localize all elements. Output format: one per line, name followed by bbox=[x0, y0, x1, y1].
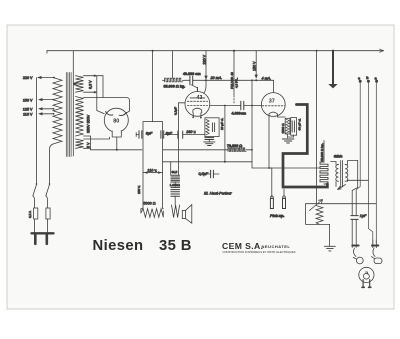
speaker hum coil lower bbox=[171, 187, 180, 196]
potentiometer volume bbox=[310, 200, 323, 223]
node junctions on plate line bbox=[205, 79, 257, 81]
wire bus drop with arrow x206 220V bbox=[204, 51, 207, 80]
ground under 43 bbox=[204, 140, 215, 146]
wire plate lead to 20mA line bbox=[204, 80, 206, 93]
rectifier tube V1 80 bbox=[104, 108, 128, 132]
capacitor 8uF right plates bbox=[161, 131, 164, 138]
wire secondary to line bbox=[348, 161, 369, 182]
wire bus drop to chassis x73 bbox=[72, 51, 74, 156]
svg-text:NEUCHATEL: NEUCHATEL bbox=[262, 244, 291, 249]
banana plug 1 bbox=[353, 248, 363, 264]
wire tap 110V with arrow bbox=[38, 112, 54, 115]
svg-text:150 V: 150 V bbox=[253, 61, 257, 71]
capacitor third plates bbox=[165, 131, 205, 138]
wire terminal c down bbox=[356, 83, 360, 190]
capacitor cathode bypass plates bbox=[205, 138, 214, 140]
output tube V2 43 bbox=[185, 92, 210, 117]
svg-text:c: c bbox=[358, 77, 360, 81]
transformer T1 core bbox=[66, 73, 71, 157]
wire tap 125V with arrow bbox=[38, 107, 54, 110]
wire HV bottom lead bbox=[84, 136, 91, 148]
svg-text:110 V: 110 V bbox=[23, 113, 33, 117]
svg-text:5000 Ω: 5000 Ω bbox=[144, 202, 156, 206]
svg-text:40 µF el.: 40 µF el. bbox=[298, 118, 302, 130]
svg-text:125 V: 125 V bbox=[23, 107, 33, 111]
svg-text:230 v.: 230 v. bbox=[185, 130, 196, 134]
rectifier cathode notch bbox=[112, 131, 121, 138]
wire tap 150V with arrow bbox=[38, 98, 54, 101]
ground under potentiometer bbox=[324, 246, 335, 251]
label vertical two-line beside x234 bbox=[230, 72, 239, 89]
svg-text:46,5: 46,5 bbox=[171, 170, 177, 174]
speaker field coil upper bbox=[171, 175, 180, 182]
svg-text:El. Haut-Parleur: El. Haut-Parleur bbox=[204, 190, 232, 195]
resistor 45000 ohm bp vertical bbox=[320, 162, 328, 184]
svg-text:20 mA.: 20 mA. bbox=[210, 76, 223, 80]
wire resistor top lead bbox=[323, 141, 325, 163]
svg-text:0,5 A: 0,5 A bbox=[28, 210, 32, 218]
svg-text:220 V: 220 V bbox=[23, 76, 33, 80]
svg-text:6,3 V: 6,3 V bbox=[88, 80, 92, 89]
wire terminal a down bbox=[375, 83, 377, 240]
capacitor 0,5uF with label bbox=[205, 162, 220, 178]
wire primary bottom to switch bbox=[50, 144, 54, 184]
wire thick field coil loop bbox=[283, 105, 327, 188]
wire terminal2 stub bbox=[283, 189, 285, 196]
wire notch to B+ rail bbox=[116, 137, 118, 150]
wire pot left loop bbox=[306, 204, 320, 225]
svg-text:150 V: 150 V bbox=[23, 98, 33, 102]
terminal c bbox=[358, 77, 362, 83]
plug tips left pair bbox=[352, 245, 358, 247]
wire bus drop with arrow x256 150V bbox=[255, 51, 258, 79]
pick-up terminal 2 bbox=[283, 196, 286, 209]
svg-text:150 V.: 150 V. bbox=[137, 185, 141, 194]
dial lamp LP1 bbox=[359, 267, 374, 287]
ground earth arrow from bus x333 bbox=[328, 51, 337, 89]
wire plate feed line 20mA bbox=[193, 79, 274, 81]
node screen junction bbox=[224, 105, 226, 107]
wire ground rail y162 bbox=[163, 161, 252, 163]
wire transformer primary top bbox=[331, 162, 336, 165]
wire 70000 to junction bbox=[246, 149, 252, 151]
plug tips right pair bbox=[372, 245, 378, 247]
switch S1 mains double pole bbox=[33, 183, 51, 196]
wire bus drop x234 heater line bbox=[233, 51, 235, 103]
ground under 37 cathode bbox=[282, 139, 294, 143]
wire terminal b down bbox=[368, 83, 372, 240]
svg-text:350V 350V: 350V 350V bbox=[86, 114, 90, 133]
svg-text:8µF: 8µF bbox=[146, 132, 153, 136]
wire bias box to ground cap bbox=[208, 136, 210, 139]
wire HV top to rectifier plate bbox=[84, 98, 130, 115]
wire pair b a to plug bbox=[373, 240, 377, 248]
wire 150V drop continues bbox=[251, 80, 253, 162]
node heater winding ends bbox=[94, 75, 96, 94]
wire secondary line down bbox=[352, 161, 358, 248]
wire cathode legs bbox=[193, 113, 201, 117]
wire heater/plate lead left bbox=[95, 76, 105, 114]
wire pot bottom to ground bbox=[316, 223, 330, 246]
svg-text:CEM S.A.: CEM S.A. bbox=[222, 241, 263, 251]
fuse F1 0,5A bbox=[34, 208, 38, 219]
resistor 70000 ohm bbox=[228, 148, 246, 151]
svg-text:Niesen 35 B: Niesen 35 B bbox=[93, 238, 192, 254]
wire block right leg down bbox=[162, 173, 165, 209]
capacitor 40uF el box bbox=[291, 118, 297, 136]
terminal b bbox=[366, 76, 370, 83]
svg-text:45.000 Ω bp.: 45.000 Ω bp. bbox=[320, 143, 324, 161]
wire cathode to resistor bbox=[277, 117, 293, 138]
svg-text:80: 80 bbox=[113, 119, 119, 125]
transformer T1 rectifier filament winding 5V bbox=[76, 139, 84, 148]
bias network R C box of 43 bbox=[205, 118, 219, 137]
triode tube V3 37 bbox=[261, 93, 285, 119]
fuse F2 bbox=[46, 208, 50, 219]
wire voltage selector rail bbox=[36, 78, 38, 184]
node grid return junction bbox=[268, 167, 270, 169]
wire heater lead top bbox=[84, 75, 95, 77]
svg-text:0,1µF: 0,1µF bbox=[174, 107, 178, 115]
svg-text:1500 Ω: 1500 Ω bbox=[281, 123, 285, 134]
svg-text:4.000cm: 4.000cm bbox=[232, 112, 247, 116]
transformer T1 HV winding 350V bbox=[76, 97, 84, 137]
node coupling junction bbox=[251, 105, 253, 107]
filter capacitor block C1 bbox=[143, 122, 163, 173]
svg-text:40.000 cm: 40.000 cm bbox=[183, 72, 201, 76]
output transformer T2 GB/s bbox=[336, 161, 348, 190]
wire fuses to plug bbox=[35, 219, 48, 233]
speaker voice coil W bbox=[172, 205, 180, 218]
svg-text:110 v.: 110 v. bbox=[148, 168, 158, 172]
wire tap 220V with arrow bbox=[37, 76, 55, 79]
svg-text:70.000 Ω: 70.000 Ω bbox=[227, 144, 242, 148]
wire tube 43 left lead bbox=[179, 102, 186, 104]
wire 37 grid return to pickup bbox=[269, 118, 272, 196]
wire 5V winding to notch bbox=[84, 137, 110, 139]
capacitor 40000cm grid coupling bbox=[190, 76, 193, 85]
banana plug 2 bbox=[371, 248, 382, 264]
svg-text:GB/s: GB/s bbox=[334, 155, 343, 159]
wire resistor to coupling cap bbox=[182, 79, 190, 82]
wire pot top rail bbox=[306, 203, 377, 205]
wire center tap arrow to chassis bbox=[73, 82, 78, 85]
capacitor 4000cm plates bbox=[241, 101, 244, 110]
mains plug P1 bbox=[32, 233, 54, 244]
svg-text:0,5µF: 0,5µF bbox=[198, 172, 208, 176]
wire rail to output stage y168 bbox=[252, 162, 320, 168]
label 110 v. inside block bottom bbox=[144, 168, 162, 174]
node bus junction dots bbox=[152, 50, 335, 52]
wire resistor left start bbox=[163, 79, 165, 82]
svg-text:4,5 FIL.: 4,5 FIL. bbox=[235, 77, 239, 88]
svg-text:220 V: 220 V bbox=[203, 54, 207, 64]
wire 5V bottom to B+ rail bbox=[84, 147, 91, 149]
wire switch to fuses bbox=[34, 196, 48, 208]
svg-text:10 µF el.: 10 µF el. bbox=[220, 118, 224, 130]
wire antenna top bus bbox=[47, 49, 384, 53]
svg-text:35.000 Ω kg.: 35.000 Ω kg. bbox=[164, 84, 186, 88]
resistor 1500 ohm cathode 37 bbox=[285, 118, 290, 134]
wire block left leg down bbox=[141, 173, 143, 213]
svg-text:5 V: 5 V bbox=[87, 142, 91, 148]
loudspeaker LS1 cone bbox=[182, 205, 192, 224]
wire field coil feed x174 bbox=[171, 103, 179, 176]
svg-text:Pick-up.: Pick-up. bbox=[270, 214, 284, 218]
transformer T1 primary winding bbox=[53, 78, 62, 145]
node rail dots bbox=[224, 149, 253, 163]
wire coil to voice coil bbox=[174, 182, 176, 205]
svg-text:1µF: 1µF bbox=[360, 214, 367, 218]
wire secondary return down bbox=[355, 191, 357, 248]
terminal a bbox=[375, 77, 379, 83]
transformer T1 heater winding 6.3V bbox=[76, 76, 84, 93]
node B+ takeoff bbox=[116, 149, 118, 151]
resistor 35000 ohm tapped bbox=[165, 78, 183, 82]
wire transformer primary bottom bbox=[335, 182, 337, 187]
capacitor 8uF left plates bbox=[136, 131, 142, 138]
pick-up terminal 1 bbox=[270, 196, 273, 209]
wire grid cap lead bbox=[191, 85, 197, 92]
wire bus drop to filter block x152.6 bbox=[152, 51, 154, 122]
wire screen feed drop x225 bbox=[224, 106, 226, 162]
svg-text:37: 37 bbox=[269, 99, 275, 105]
wire bus drop x316 to potentiometer bbox=[316, 51, 318, 204]
wire plate corner to tube 37 bbox=[273, 80, 275, 92]
wire B+ rail bbox=[91, 148, 229, 150]
wire bus drop to resistor tap x172.4 bbox=[171, 51, 173, 78]
wire coupling line 43 to 37 bbox=[210, 105, 262, 107]
svg-text:CONSTRUCTION D'APPAREILS ET IN: CONSTRUCTION D'APPAREILS ET INSTR. ELECT… bbox=[223, 250, 296, 254]
capacitor 1uF plates bbox=[351, 216, 358, 220]
svg-text:4 mA.: 4 mA. bbox=[262, 76, 272, 80]
wire heater lead bottom bbox=[84, 91, 95, 93]
resistor 5000 ohm bbox=[141, 209, 163, 218]
